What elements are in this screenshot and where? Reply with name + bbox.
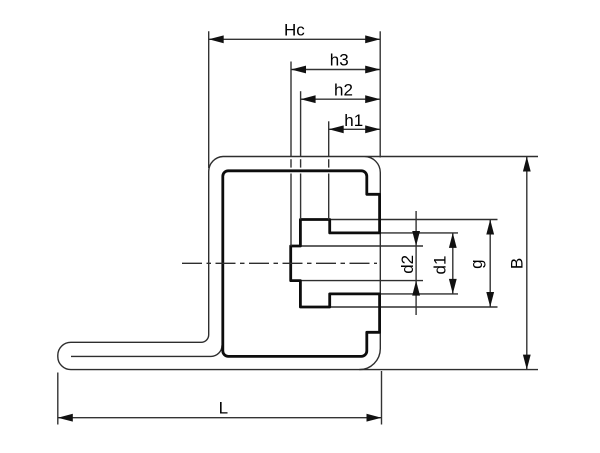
svg-text:h3: h3 xyxy=(330,51,349,70)
d1 top extension xyxy=(381,232,458,234)
dimension L xyxy=(58,371,382,425)
neck top silhouette and d2 top extension xyxy=(300,245,423,247)
dimension B xyxy=(526,157,528,370)
svg-text:d1: d1 xyxy=(431,256,450,275)
neck bottom silhouette and d2 bottom extension xyxy=(300,280,423,282)
flange silhouette top line and g top extension xyxy=(330,219,498,221)
svg-text:B: B xyxy=(508,258,527,269)
dimension d1 xyxy=(452,233,454,294)
inner foot line xyxy=(71,345,222,356)
svg-text:Hc: Hc xyxy=(284,20,305,39)
dimension h2 xyxy=(301,91,381,219)
dimension Hc xyxy=(209,31,381,168)
svg-text:h1: h1 xyxy=(344,111,363,130)
dimension g xyxy=(489,220,491,308)
dimension h3 xyxy=(291,62,380,247)
dimension h1 xyxy=(329,121,381,219)
svg-text:L: L xyxy=(219,399,228,418)
dimension d2 xyxy=(415,211,417,315)
d1 bottom extension xyxy=(381,293,458,295)
thick cross-section profile of clamp xyxy=(223,171,380,357)
flange silhouette bottom line and g bottom extension xyxy=(330,306,498,308)
bottom edge extension toward B dimension xyxy=(359,369,538,371)
svg-text:d2: d2 xyxy=(398,255,417,274)
svg-text:h2: h2 xyxy=(334,81,353,100)
clamp body outer silhouette with foot xyxy=(58,157,538,370)
center line xyxy=(182,262,377,264)
svg-text:g: g xyxy=(467,259,486,268)
